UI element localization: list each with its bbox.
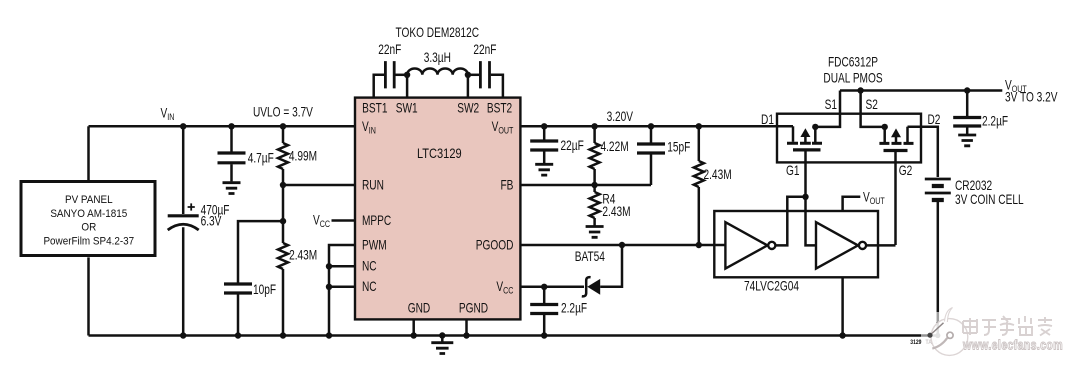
op IC U1 LTC3129 body bbox=[355, 98, 520, 320]
value label 22nF right bbox=[473, 42, 496, 58]
transistor Q1 left PMOS bbox=[787, 126, 822, 150]
node VCC label at MPPC bbox=[313, 212, 330, 229]
watermark logo circle bbox=[927, 308, 967, 356]
capacitor C 15pF bbox=[637, 126, 665, 185]
ground below 4.7uF bbox=[223, 183, 241, 194]
inverter U3a triangle bbox=[725, 222, 775, 268]
value label 2.2uF output bbox=[982, 113, 1008, 129]
IC name label LTC3129 bbox=[417, 146, 462, 161]
wire SW1 up bbox=[406, 75, 409, 98]
wire PGND pin down bbox=[465, 319, 468, 335]
resistor R 4.99M bbox=[278, 126, 288, 243]
junction battery at rail bbox=[935, 333, 940, 338]
op IC U3 74LVC2G04 package box bbox=[714, 211, 878, 277]
capacitor C 2.2uF at VCC bbox=[530, 287, 558, 336]
svg-text:RUN: RUN bbox=[362, 177, 384, 193]
wire PWM-NC-NC tie down bbox=[329, 245, 355, 336]
diode D BAT54 schottky bbox=[582, 245, 622, 296]
label FDC6312P bbox=[828, 54, 878, 70]
junction ground tap at rail bbox=[439, 332, 445, 338]
capacitor C 4.7uF bbox=[218, 126, 246, 181]
svg-text:BST2: BST2 bbox=[487, 100, 513, 116]
wire inverter1 output to G1 bbox=[775, 197, 805, 246]
wire VOUT 3.20V rail to D1 bbox=[520, 125, 793, 128]
svg-text:LTC3129: LTC3129 bbox=[417, 146, 462, 161]
svg-text:4.7µF: 4.7µF bbox=[248, 150, 274, 166]
wire VCC label to MPPC pin bbox=[332, 219, 356, 222]
junction G1 node bbox=[802, 194, 808, 200]
resistor R 2.43M pullup bbox=[694, 126, 704, 245]
label TOKO DEM2812C bbox=[396, 24, 480, 40]
wire GND pin down bbox=[412, 319, 415, 335]
junction PWM tie at rail bbox=[326, 332, 332, 338]
transistor U2 FDC6312P package box bbox=[777, 114, 921, 163]
svg-text:BST1: BST1 bbox=[362, 100, 388, 116]
wire G2 gate lead down bbox=[894, 151, 897, 245]
svg-text:FDC6312P: FDC6312P bbox=[828, 54, 878, 70]
pin label D2 bbox=[928, 112, 941, 128]
pin label GND bbox=[408, 300, 431, 316]
capacitor C 470uF electrolytic bbox=[168, 126, 199, 335]
capacitor C 22nF right bbox=[480, 61, 489, 88]
capacitor C 10pF bbox=[224, 221, 283, 335]
svg-text:PowerFilm SP4.2-37: PowerFilm SP4.2-37 bbox=[43, 236, 134, 248]
wire VIN rail bbox=[89, 125, 356, 128]
wire BST1 up bbox=[374, 75, 385, 98]
watermark fade patches bbox=[921, 332, 929, 340]
junction 2.43M pullup bottom bbox=[696, 242, 702, 248]
junction 15pF top bbox=[648, 123, 654, 129]
junction NC1 bbox=[326, 263, 332, 269]
value label 2.43M of R4 bbox=[602, 203, 630, 219]
ground below R4 bbox=[586, 227, 604, 238]
wire FB to divider bbox=[520, 184, 651, 187]
junction 2.2uF VCC top bbox=[541, 284, 547, 290]
wire RUN to IC bbox=[283, 184, 355, 187]
capacitor C 2.2uF output bbox=[953, 91, 981, 135]
inverter U3b triangle bbox=[816, 222, 866, 268]
watermark chinese text bbox=[963, 316, 1052, 336]
value label 2.43M bbox=[289, 247, 317, 263]
svg-text:2.2µF: 2.2µF bbox=[982, 113, 1008, 129]
wire SW2 to 22nF right bbox=[468, 74, 479, 77]
junction 10pF tap node bbox=[280, 218, 286, 224]
svg-text:SW1: SW1 bbox=[396, 100, 418, 116]
wire PV panel bottom to ground rail bbox=[87, 257, 90, 335]
wire VCC pin to diode bbox=[520, 286, 584, 289]
junction FB node bbox=[591, 182, 597, 188]
transistor Q2 right PMOS bbox=[879, 127, 913, 151]
value label 2.43M pullup bbox=[704, 167, 732, 183]
wire VOUT output rail bbox=[840, 89, 1002, 92]
svg-text:D2: D2 bbox=[928, 112, 941, 128]
wire SW2 up bbox=[467, 75, 470, 98]
svg-text:GND: GND bbox=[408, 300, 431, 316]
node 3.20V label bbox=[607, 108, 633, 124]
resistor R 2.43M lower left bbox=[278, 243, 288, 336]
wire S1 source to VOUT bbox=[815, 91, 840, 127]
wire bottom ground rail bbox=[89, 334, 938, 337]
svg-text:TOKO DEM2812C: TOKO DEM2812C bbox=[396, 24, 480, 40]
svg-text:www.elecfans.com: www.elecfans.com bbox=[962, 337, 1063, 353]
pin label G2 bbox=[899, 163, 913, 179]
wire NC stub 2 bbox=[329, 286, 355, 289]
svg-text:22µF: 22µF bbox=[561, 138, 584, 154]
svg-text:3.20V: 3.20V bbox=[607, 108, 633, 124]
svg-text:BAT54: BAT54 bbox=[575, 249, 605, 265]
wire inverter VOUT supply tap bbox=[843, 197, 861, 211]
pin label VCC bbox=[496, 279, 513, 296]
svg-text:DUAL PMOS: DUAL PMOS bbox=[823, 70, 882, 86]
ground main below rail bbox=[431, 336, 453, 354]
svg-text:S1: S1 bbox=[825, 97, 838, 113]
node VOUT supply label bbox=[863, 189, 885, 206]
node VIN label bbox=[161, 105, 175, 122]
junction 2.2uF VCC bottom at rail bbox=[541, 332, 547, 338]
pin label S2 bbox=[866, 97, 879, 113]
svg-text:PV PANEL: PV PANEL bbox=[65, 195, 113, 207]
label DUAL PMOS bbox=[823, 70, 882, 86]
junction BAT54 tap bbox=[619, 242, 625, 248]
junction inverter ground at rail bbox=[839, 332, 845, 338]
pin label BST2 bbox=[487, 100, 513, 116]
pin label FB bbox=[500, 177, 513, 193]
pin label D1 bbox=[761, 112, 774, 128]
pin label PWM bbox=[362, 237, 387, 253]
value label 22nF left bbox=[378, 42, 401, 58]
PV panel source box bbox=[21, 182, 155, 256]
svg-text:PGND: PGND bbox=[459, 300, 489, 316]
value label CR2032 coin cell bbox=[955, 177, 1024, 207]
svg-text:UVLO = 3.7V: UVLO = 3.7V bbox=[253, 104, 313, 120]
label 74LVC2G04 bbox=[744, 278, 799, 294]
svg-text:NC: NC bbox=[362, 279, 377, 295]
svg-text:NC: NC bbox=[362, 258, 377, 274]
junction S2 at VOUT rail bbox=[857, 87, 863, 93]
node UVLO label bbox=[253, 104, 313, 120]
pin label RUN bbox=[362, 177, 384, 193]
junction SW2 bbox=[465, 72, 471, 78]
pin label VOUT bbox=[492, 118, 514, 135]
junction 2.43M bottom at rail bbox=[280, 332, 286, 338]
value label 3.3uH bbox=[424, 50, 451, 66]
svg-text:4.99M: 4.99M bbox=[289, 148, 317, 164]
svg-text:D1: D1 bbox=[761, 112, 774, 128]
ground below output cap bbox=[958, 135, 976, 146]
svg-text:PGOOD: PGOOD bbox=[476, 237, 514, 253]
inductor L 3.3uH bbox=[407, 68, 468, 74]
svg-text:2.43M: 2.43M bbox=[289, 247, 317, 263]
svg-text:22nF: 22nF bbox=[378, 42, 401, 58]
pin label PGND bbox=[459, 300, 489, 316]
value label 2.2uF VCC bbox=[561, 300, 587, 316]
svg-text:SW2: SW2 bbox=[457, 100, 479, 116]
svg-text:FB: FB bbox=[500, 177, 513, 193]
value label 15pF bbox=[667, 139, 690, 155]
junction 470uF top bbox=[180, 123, 186, 129]
pin label G1 bbox=[786, 163, 800, 179]
junction 4.7uF top bbox=[228, 123, 234, 129]
pin label NC2 bbox=[362, 279, 377, 295]
svg-text:22nF: 22nF bbox=[473, 42, 496, 58]
wire PV panel top to VIN rail bbox=[87, 126, 90, 180]
svg-text:3129: 3129 bbox=[910, 340, 921, 347]
watermark url text bbox=[962, 337, 1063, 353]
junction 22uF top bbox=[541, 123, 547, 129]
pin label VIN bbox=[362, 118, 376, 135]
junction SW1 bbox=[404, 72, 410, 78]
svg-text:PWM: PWM bbox=[362, 237, 387, 253]
junction 2.43M pullup top bbox=[696, 123, 702, 129]
battery BT CR2032 bbox=[925, 179, 951, 336]
junction Q2 source bbox=[882, 124, 888, 130]
junction output cap at VOUT rail bbox=[964, 87, 970, 93]
svg-text:2.2µF: 2.2µF bbox=[561, 300, 587, 316]
junction Q1 source bbox=[812, 124, 818, 130]
plus sign of 470uF bbox=[188, 203, 195, 210]
resistor R4 2.43M bbox=[590, 185, 600, 226]
svg-text:4.22M: 4.22M bbox=[601, 139, 629, 155]
wire inverter2 output to G2 bbox=[866, 244, 895, 247]
svg-text:OR: OR bbox=[81, 222, 96, 234]
value label BAT54 bbox=[575, 249, 605, 265]
pin label MPPC bbox=[362, 212, 392, 228]
svg-text:2.43M: 2.43M bbox=[602, 203, 630, 219]
svg-text:15pF: 15pF bbox=[667, 139, 690, 155]
wire S2 to VOUT bbox=[861, 91, 885, 127]
svg-text:MPPC: MPPC bbox=[362, 212, 392, 228]
ground below 22uF bbox=[535, 164, 553, 175]
pin label SW1 bbox=[396, 100, 418, 116]
pin label NC1 bbox=[362, 258, 377, 274]
svg-text:3.3µH: 3.3µH bbox=[424, 50, 451, 66]
svg-text:G2: G2 bbox=[899, 163, 913, 179]
pin label S1 bbox=[825, 97, 838, 113]
svg-text:G1: G1 bbox=[786, 163, 800, 179]
PV panel label bbox=[43, 195, 134, 248]
svg-text:S2: S2 bbox=[866, 97, 879, 113]
value label 10pF bbox=[253, 282, 276, 298]
resistor R 4.22M bbox=[590, 126, 600, 185]
junction 10pF bottom at rail bbox=[235, 332, 241, 338]
pin label BST1 bbox=[362, 100, 388, 116]
value label 4.22M bbox=[601, 139, 629, 155]
reference label R4 bbox=[602, 191, 615, 207]
svg-text:10pF: 10pF bbox=[253, 282, 276, 298]
junction 470uF bottom bbox=[180, 332, 186, 338]
pin label PGOOD bbox=[476, 237, 514, 253]
label 3129 TA01 bbox=[910, 340, 937, 347]
value label 4.7uF bbox=[248, 150, 274, 166]
value label 470uF 6.3V bbox=[201, 202, 230, 229]
capacitor C 22nF left bbox=[385, 61, 394, 88]
junction 4.22M top bbox=[591, 123, 597, 129]
pin label SW2 bbox=[457, 100, 479, 116]
wire 22nF left to SW1 bbox=[395, 74, 407, 77]
capacitor C 22uF bbox=[530, 126, 558, 163]
value label 22uF bbox=[561, 138, 584, 154]
value label 4.99M bbox=[289, 148, 317, 164]
junction NC2 bbox=[326, 284, 332, 290]
svg-text:6.3V: 6.3V bbox=[201, 213, 222, 229]
junction PGND at rail bbox=[463, 332, 469, 338]
wire 22nF right to BST2 bbox=[491, 75, 503, 98]
wire NC stub 1 bbox=[329, 265, 355, 268]
svg-text:SANYO AM-1815: SANYO AM-1815 bbox=[50, 209, 127, 221]
wire G1 node to inverter2 input bbox=[806, 197, 817, 246]
wire D2 to battery bbox=[908, 127, 938, 177]
svg-text:74LVC2G04: 74LVC2G04 bbox=[744, 278, 799, 294]
svg-text:2.43M: 2.43M bbox=[704, 167, 732, 183]
svg-text:3V COIN CELL: 3V COIN CELL bbox=[955, 191, 1024, 207]
wire G1 gate lead down bbox=[804, 151, 807, 197]
wire inverter ground down bbox=[841, 277, 844, 335]
wire PGOOD to inverter input bbox=[520, 244, 725, 247]
junction 4.99M top at VIN rail bbox=[280, 123, 286, 129]
junction RUN node bbox=[280, 182, 286, 188]
junction GND at rail bbox=[411, 332, 417, 338]
node VOUT output label bbox=[1005, 77, 1058, 105]
svg-text:3V TO 3.2V: 3V TO 3.2V bbox=[1005, 89, 1058, 105]
